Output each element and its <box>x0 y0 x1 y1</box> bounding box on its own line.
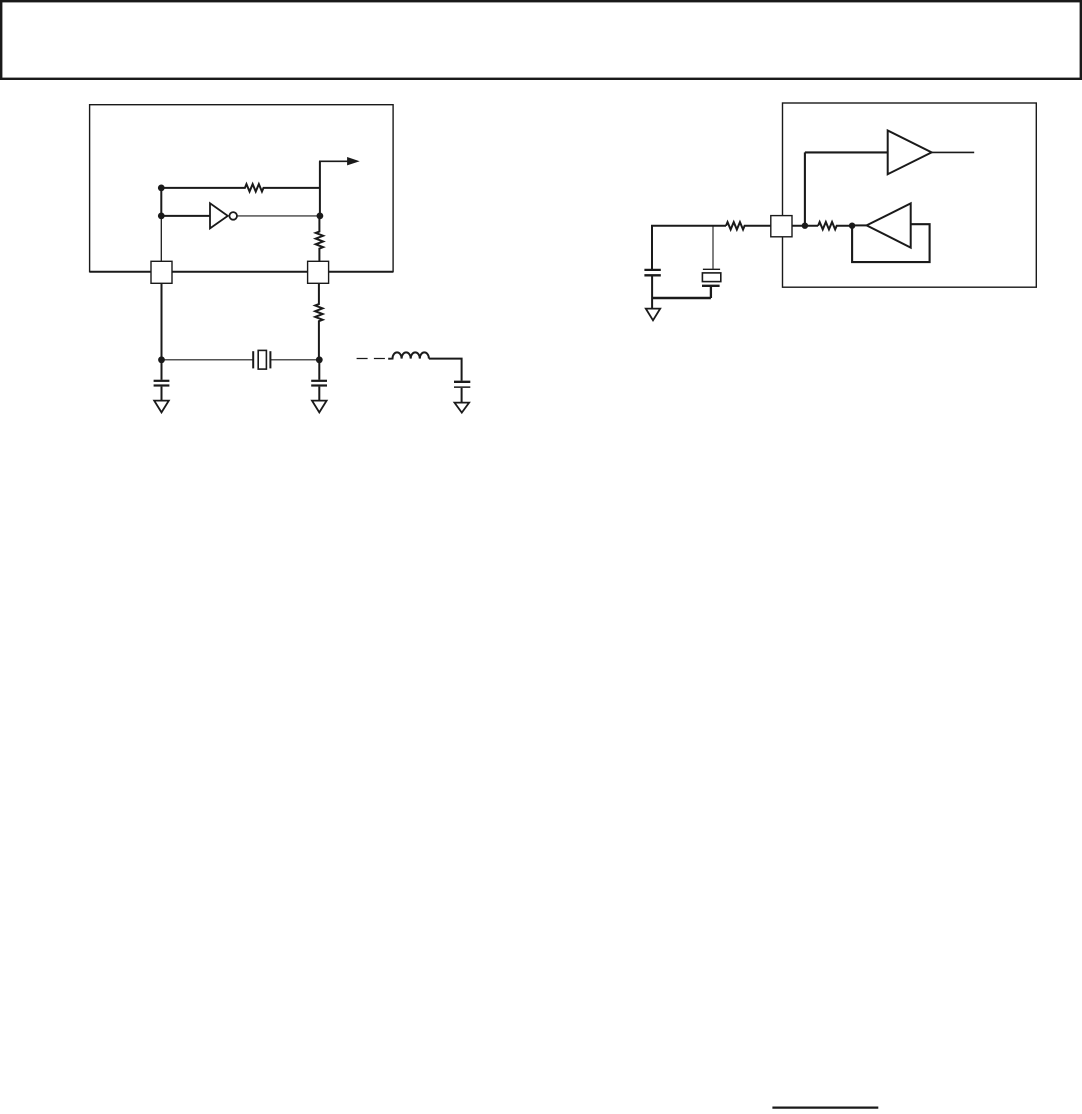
IC box bottom edge (thick) <box>90 271 394 273</box>
crystal Y2 top plate <box>703 268 720 270</box>
ground (LC) <box>455 403 470 413</box>
crystal Y2 top lead <box>712 226 714 269</box>
crystal Y1 left plate <box>252 351 254 368</box>
resistor below pad XTAL2 <box>315 283 322 360</box>
pad XTAL1 <box>151 261 172 283</box>
wire crystal to bottom right node <box>270 359 319 361</box>
wire left node to pad XTAL1 <box>160 216 162 261</box>
resistor vertical inside box <box>316 216 323 261</box>
inverter bubble <box>229 212 237 220</box>
ground (left) <box>154 401 169 413</box>
ground (right schematic) <box>646 309 660 321</box>
wire to buffer input <box>805 151 888 153</box>
wire node up to buffer row <box>804 152 806 225</box>
wire bottom left node to crystal <box>162 359 254 361</box>
buffer amp <box>888 131 932 175</box>
bottom wire cap to crystal <box>652 297 711 299</box>
buffer output wire <box>932 151 975 153</box>
crystal Y2 bottom plate <box>702 285 720 287</box>
IC box (right schematic) <box>783 103 1037 287</box>
capacitor C3 <box>454 381 470 383</box>
wire node to inverter tip <box>852 224 867 226</box>
wire output vertical <box>319 161 321 216</box>
crystal Y2 body <box>702 273 720 282</box>
node dot bottom right <box>316 356 323 363</box>
wire node to inverter input <box>161 215 210 217</box>
wire left column between nodes <box>160 188 162 216</box>
resistor R feedback (top, horizontal) <box>161 184 320 191</box>
wire corner to resistor (outside) <box>652 226 726 269</box>
pad XTAL2 <box>308 261 329 283</box>
resistor R2 (outside, horizontal) <box>726 222 771 229</box>
arrowhead output <box>347 157 360 165</box>
crystal Y1 body <box>258 350 266 369</box>
dashed wire (optional LC) <box>357 358 385 360</box>
wire inductor to corner <box>429 359 462 381</box>
wire pad to node <box>792 225 818 227</box>
node dot bottom left <box>158 356 165 363</box>
wire bubble to node <box>237 215 320 217</box>
node dot C <box>317 213 324 220</box>
wire cap C3 to ground <box>461 388 463 402</box>
inverter amp (pointing left) <box>867 203 911 247</box>
inverter U1 <box>210 203 228 228</box>
pad REFIN <box>771 216 792 237</box>
node dot E <box>849 223 855 229</box>
wire node to cap C2 <box>318 360 320 380</box>
wire node to cap C1 <box>161 360 163 380</box>
wire cap C1 to ground <box>161 387 163 401</box>
crystal Y1 right plate <box>269 351 271 368</box>
feedback loop <box>852 224 930 262</box>
wire output horizontal <box>319 160 350 162</box>
node dot A <box>158 184 165 191</box>
inductor L1 <box>388 352 429 358</box>
wire pad XTAL1 to bottom node <box>161 283 163 360</box>
capacitor C2 <box>311 380 327 382</box>
capacitor C1 <box>154 380 170 382</box>
ground (mid) <box>312 401 327 413</box>
wire cap C2 to ground <box>318 387 320 401</box>
wire to ground (right schematic) <box>651 298 653 308</box>
resistor R3 (inside, horizontal) <box>818 222 852 229</box>
node dot B <box>158 213 165 220</box>
header box <box>1 1 1081 79</box>
IC box (left schematic) <box>90 105 394 272</box>
node dot D <box>802 223 808 229</box>
capacitor C4 <box>644 269 660 271</box>
footer rule <box>772 1106 878 1108</box>
crystal Y2 bottom lead <box>710 287 712 298</box>
wire cap C4 down <box>651 276 653 298</box>
